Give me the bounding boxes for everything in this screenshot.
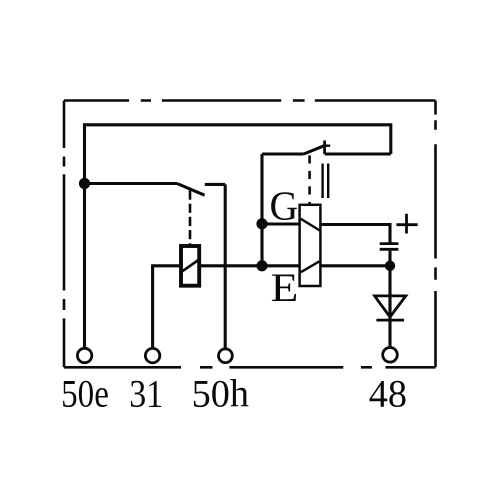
wire: diode to terminal 48	[388, 320, 391, 348]
node: G-row junction	[256, 218, 267, 229]
thermal element double bars beside S2 linkage	[323, 164, 329, 199]
switch S1 movable arm (open, drooping)	[177, 184, 205, 196]
node: junction of 50e riser and switch S1 feed	[79, 178, 90, 189]
wire: G row right from control box to capacitor corner	[320, 223, 390, 226]
diode V1 cathode bar	[376, 319, 404, 322]
wire: 50h vertical drop	[224, 184, 227, 348]
switch S2 fixed contact vertical stub	[323, 141, 326, 155]
svg-text:E: E	[271, 266, 299, 310]
switch S2 movable arm (rising)	[304, 146, 325, 154]
svg-text:G: G	[269, 183, 298, 229]
terminal 50h circle	[219, 349, 233, 363]
node: capacitor / diode junction on E row	[385, 261, 395, 271]
capacitor C1 top plate	[380, 242, 399, 245]
wire: capacitor bottom lead to E-row junction	[388, 251, 391, 266]
polarity plus sign	[396, 214, 417, 234]
svg-text:50e: 50e	[61, 372, 109, 415]
wire: S2 fixed contact to right column	[325, 152, 391, 155]
linkage: dashed actuator from S1 arm to relay coil K1	[189, 190, 192, 245]
diode V1 triangle	[375, 296, 406, 317]
capacitor C1 bottom plate	[380, 248, 399, 251]
switch S2 contact tick	[325, 144, 331, 146]
svg-text:48: 48	[369, 372, 407, 416]
wire: coil row from K1 to control box E terminal	[199, 264, 299, 267]
terminal 50e circle	[77, 348, 91, 362]
relay housing outline (dash-dot enclosure border)	[64, 101, 436, 368]
relay coil K1 diagonal stroke	[181, 260, 198, 272]
relay coil K1 (box)	[181, 246, 199, 286]
wire: capacitor top lead from G row	[388, 223, 391, 243]
wire: junction down to diode V1	[388, 266, 391, 319]
wire: switch S2 feed from branch vertical to pivot	[262, 152, 304, 155]
wire: 31 column up to coil row corner	[151, 266, 154, 349]
wire: top supply rail from 50e column to right column	[85, 123, 391, 126]
terminal 31 circle	[145, 348, 159, 362]
wire: G row from junction to control box	[262, 222, 300, 225]
svg-text:50h: 50h	[192, 372, 249, 416]
linkage: dashed actuator from S2 to control box	[308, 155, 311, 204]
wire: coil row from 31 corner to coil K1	[151, 264, 181, 267]
wire: right column drop to switch S2 fixed contact	[389, 123, 392, 154]
control unit box (between G and E)	[300, 205, 321, 286]
wire: branch vertical from switch S2 feed down to E row	[260, 154, 263, 266]
terminal 48 circle	[383, 348, 398, 363]
node: E-row junction	[256, 260, 267, 271]
control unit lower diagonal	[301, 261, 320, 272]
wire: 50e vertical riser	[83, 123, 86, 348]
wire: E row right from control box to capacitor junction	[320, 264, 390, 267]
svg-text:31: 31	[129, 371, 163, 415]
wire: switch S1 fixed contact to 50h column	[205, 183, 225, 186]
wire: switch S1 feed from junction to pivot	[85, 182, 178, 185]
control unit upper diagonal	[301, 219, 320, 231]
